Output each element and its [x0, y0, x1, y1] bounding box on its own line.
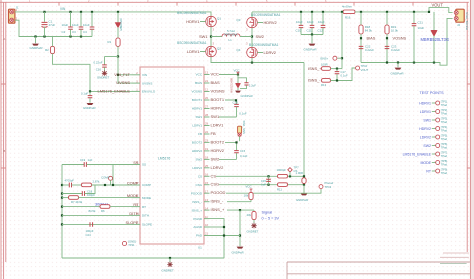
- wire gate Q4: [257, 52, 263, 54]
- svg-text:VOSNS: VOSNS: [211, 89, 225, 94]
- wire gate Q3: [257, 22, 263, 24]
- svg-text:GNDPwR: GNDPwR: [296, 198, 308, 202]
- svg-text:SW2: SW2: [423, 144, 431, 148]
- wire gate Q1: [200, 21, 206, 23]
- svg-text:BSC0904NSIATMA1: BSC0904NSIATMA1: [177, 11, 207, 15]
- svg-text:HDRV1: HDRV1: [211, 106, 225, 111]
- svg-text:10.0k: 10.0k: [391, 29, 399, 33]
- svg-text:ISNS_-: ISNS_-: [308, 78, 321, 83]
- svg-text:10uF: 10uF: [62, 23, 69, 27]
- junction: [311, 11, 313, 13]
- svg-text:PGOOD: PGOOD: [211, 190, 226, 195]
- pin RT U1: [132, 206, 141, 208]
- svg-text:PGND: PGND: [193, 217, 203, 221]
- junction: [341, 11, 343, 13]
- svg-text:R1: R1: [107, 40, 111, 44]
- wire SW1: [219, 116, 237, 118]
- capacitor C2: [70, 12, 72, 27]
- svg-text:LDRV2: LDRV2: [264, 50, 276, 55]
- svg-text:TPad: TPad: [441, 137, 448, 141]
- svg-text:GNDPwR: GNDPwR: [304, 48, 318, 52]
- svg-text:MODE: MODE: [421, 161, 432, 165]
- svg-text:[TP1]: [TP1]: [441, 100, 447, 104]
- wire SW2: [219, 158, 237, 160]
- wire ISNS_-: [227, 201, 251, 203]
- svg-text:PGOOD: PGOOD: [191, 191, 203, 195]
- svg-text:10uF: 10uF: [418, 26, 425, 30]
- resistor R14: [253, 210, 255, 211]
- wire: [303, 185, 305, 193]
- connector J3 test pin: [238, 126, 242, 133]
- ground GNDPWR: [309, 44, 316, 46]
- wire source rail: [211, 57, 304, 63]
- capacitor C21: [413, 12, 415, 24]
- junction: [61, 214, 63, 216]
- wire: [253, 220, 255, 224]
- wire CS: [216, 175, 304, 177]
- svg-text:LDRV1: LDRV1: [211, 123, 225, 128]
- junction: [91, 11, 93, 13]
- svg-text:FB: FB: [198, 132, 202, 136]
- svg-text:TPad: TPad: [441, 129, 448, 133]
- svg-text:VIN: VIN: [142, 73, 147, 77]
- svg-text:LDRV1: LDRV1: [420, 110, 431, 114]
- svg-text:C2: C2: [62, 30, 66, 34]
- transistor Q3 HDRV2: [247, 17, 258, 28]
- junction SW2: [251, 35, 253, 37]
- junction: [80, 11, 82, 13]
- svg-text:HDRV2: HDRV2: [419, 127, 431, 131]
- svg-text:BIAS: BIAS: [195, 81, 202, 85]
- svg-text:CS: CS: [211, 173, 217, 178]
- junction: [104, 184, 106, 186]
- svg-text:RT: RT: [133, 202, 139, 207]
- connector J1: [9, 9, 15, 23]
- svg-text:[TP6]: [TP6]: [441, 142, 447, 146]
- svg-text:CSG: CSG: [195, 183, 202, 187]
- resistor R11: [278, 183, 288, 187]
- junction: [34, 35, 36, 37]
- svg-text:BOOT1: BOOT1: [192, 98, 203, 102]
- pin VCC U1: [204, 74, 210, 76]
- junction: [397, 61, 399, 63]
- svg-text:1000pF: 1000pF: [277, 168, 287, 172]
- svg-text:ISNS_-: ISNS_-: [192, 200, 202, 204]
- wire MODE: [62, 197, 69, 199]
- svg-text:R16: R16: [345, 16, 351, 20]
- svg-text:84.5k: 84.5k: [89, 209, 96, 213]
- svg-text:SW2: SW2: [211, 156, 220, 161]
- svg-text:EN/UVLO: EN/UVLO: [142, 90, 156, 94]
- ground GNDPWR: [235, 91, 241, 93]
- svg-text:SS: SS: [142, 163, 146, 167]
- svg-text:C4: C4: [83, 30, 87, 34]
- junction: [112, 184, 114, 186]
- wire SW1 node: [210, 27, 212, 46]
- junction: [360, 11, 362, 13]
- wire BOOT1: [225, 100, 237, 104]
- junction: [239, 234, 241, 236]
- svg-text:22: 22: [205, 130, 208, 134]
- junction: [341, 57, 343, 59]
- svg-text:[TP3]: [TP3]: [441, 117, 447, 121]
- wire PGND: [210, 219, 225, 258]
- svg-text:C16: C16: [96, 68, 102, 72]
- svg-text:C24: C24: [86, 233, 92, 237]
- svg-text:ISNS_+: ISNS_+: [192, 208, 203, 212]
- svg-text:C12: C12: [318, 29, 324, 33]
- svg-text:GNDPwR: GNDPwR: [232, 251, 244, 255]
- transistor Q2 LDRV1: [206, 46, 217, 57]
- svg-text:VOSNS: VOSNS: [393, 36, 407, 41]
- wire: [110, 206, 132, 208]
- svg-text:B: B: [3, 149, 5, 153]
- connector J2: [454, 9, 464, 22]
- wire LM5176_ENABLE: [53, 54, 132, 92]
- wire output gnd: [361, 18, 453, 65]
- pin ISNS_- U1: [204, 201, 210, 203]
- capacitor C22: [359, 46, 364, 48]
- svg-text:C19: C19: [80, 158, 86, 162]
- svg-text:[TP4]: [TP4]: [441, 125, 447, 129]
- resistor R15: [302, 178, 306, 184]
- wire: [239, 136, 241, 141]
- wire CS sense: [303, 63, 305, 177]
- svg-text:R11: R11: [277, 188, 282, 192]
- svg-text:BIAS: BIAS: [367, 36, 376, 41]
- junction: [433, 61, 435, 63]
- inductor L1: [211, 36, 222, 38]
- svg-text:47uF: 47uF: [49, 23, 56, 27]
- svg-text:4700pF: 4700pF: [65, 179, 75, 183]
- junction: [89, 90, 91, 92]
- svg-text:29: 29: [205, 122, 208, 126]
- wire PGOOD: [226, 189, 321, 193]
- svg-text:Screw_Terminal: Screw_Terminal: [465, 12, 468, 30]
- wire SW2 node: [251, 28, 253, 47]
- capacitor C13: [234, 104, 239, 106]
- resistor R6: [100, 205, 110, 209]
- svg-text:0.22uF: 0.22uF: [94, 61, 103, 65]
- test point GND: [122, 241, 126, 245]
- svg-text:19: 19: [205, 147, 208, 151]
- svg-text:10k: 10k: [244, 193, 249, 197]
- junction: [303, 175, 305, 177]
- capacitor C3: [80, 12, 82, 27]
- junction: [61, 206, 63, 208]
- svg-text:COMP: COMP: [142, 183, 151, 187]
- test point TP6: [109, 176, 113, 180]
- capacitor C23: [385, 46, 390, 48]
- wire: [35, 37, 37, 44]
- junction: [386, 37, 388, 39]
- pin DITH U1: [132, 214, 141, 216]
- junction: [223, 234, 225, 236]
- junction: [360, 37, 362, 39]
- wire comp bus: [61, 165, 63, 259]
- svg-text:2.87k: 2.87k: [93, 179, 100, 183]
- resistor R2: [50, 46, 54, 53]
- capacitor C4: [91, 12, 93, 27]
- junction: [386, 11, 388, 13]
- svg-text:TPad: TPad: [441, 171, 448, 175]
- svg-text:SW1_SNS: SW1_SNS: [242, 121, 246, 135]
- wire: [236, 107, 238, 117]
- svg-text:21: 21: [205, 232, 208, 236]
- wire: [289, 172, 291, 176]
- svg-text:[TP5]: [TP5]: [441, 134, 447, 138]
- svg-text:CSG: CSG: [211, 182, 220, 187]
- svg-text:23: 23: [205, 139, 208, 143]
- svg-text:TPad: TPad: [441, 154, 448, 158]
- svg-text:[TP9]: [TP9]: [441, 168, 447, 172]
- svg-text:14: 14: [205, 206, 208, 210]
- svg-text:13: 13: [205, 71, 208, 75]
- capacitor C20: [69, 183, 71, 188]
- svg-text:TP11: TP11: [128, 243, 135, 247]
- junction: [336, 79, 338, 81]
- junction: [69, 35, 71, 37]
- svg-text:HDRV1: HDRV1: [419, 101, 431, 105]
- svg-text:Signal: Signal: [262, 210, 273, 214]
- svg-text:C15: C15: [240, 149, 246, 153]
- junction: [69, 11, 71, 13]
- svg-text:GNDRET: GNDRET: [247, 230, 259, 234]
- svg-text:SW2: SW2: [195, 158, 202, 162]
- svg-text:C10: C10: [296, 29, 302, 33]
- ground GNDPWR: [301, 193, 308, 195]
- svg-text:VIN_FLT: VIN_FLT: [114, 72, 130, 77]
- pin SLOPE U1: [132, 223, 141, 225]
- svg-text:Q4: Q4: [236, 48, 240, 52]
- svg-text:BSC0904NSIATMA1: BSC0904NSIATMA1: [249, 43, 279, 47]
- capacitor C6: [238, 78, 247, 83]
- junction: [413, 61, 415, 63]
- pin PGOOD U1: [204, 192, 210, 194]
- svg-text:LM5176_ENABLE: LM5176_ENABLE: [98, 88, 131, 93]
- svg-text:VCC: VCC: [211, 72, 220, 77]
- pin LDRV1 U1: [204, 125, 210, 127]
- svg-text:SW1: SW1: [211, 114, 220, 119]
- junction: [43, 35, 45, 37]
- capacitor C10: [300, 12, 302, 25]
- svg-text:SW1: SW1: [199, 34, 207, 39]
- svg-text:R7 49.9k: R7 49.9k: [71, 200, 83, 204]
- svg-text:Q3: Q3: [236, 18, 240, 22]
- svg-text:SRP1265A: SRP1265A: [224, 32, 238, 36]
- svg-text:Q1: Q1: [217, 17, 221, 21]
- transistor Q1 HDRV1: [206, 16, 217, 27]
- wire: [386, 34, 388, 63]
- junction: [251, 61, 253, 63]
- wire VOUT to J2: [355, 8, 453, 13]
- svg-text:MBR0520: MBR0520: [119, 18, 123, 30]
- svg-text:TPad: TPad: [441, 163, 448, 167]
- svg-text:LM5176: LM5176: [158, 157, 170, 161]
- svg-text:LDRV2: LDRV2: [192, 166, 202, 170]
- diode D2 MBRB520: [433, 12, 435, 31]
- svg-text:HDRV1: HDRV1: [192, 107, 202, 111]
- svg-text:MODE: MODE: [142, 196, 151, 200]
- svg-text:C11: C11: [307, 29, 312, 33]
- svg-text:15: 15: [205, 181, 208, 185]
- svg-text:DITH: DITH: [142, 214, 149, 218]
- svg-text:10: 10: [205, 223, 208, 227]
- svg-text:LDRV1: LDRV1: [187, 49, 199, 54]
- capacitor C14: [234, 151, 239, 153]
- svg-text:SLOPE: SLOPE: [142, 223, 152, 227]
- wire DITH: [62, 214, 132, 216]
- svg-text:ISNS+: ISNS+: [320, 56, 329, 60]
- svg-text:100R: 100R: [321, 62, 328, 66]
- svg-text:2.2uF: 2.2uF: [249, 83, 256, 87]
- wire: [360, 34, 362, 63]
- svg-text:HDRV2: HDRV2: [211, 148, 225, 153]
- svg-text:HDRV1: HDRV1: [186, 19, 199, 24]
- wire CSG: [219, 184, 304, 186]
- svg-text:TEST POINTS: TEST POINTS: [420, 91, 445, 95]
- svg-text:43k: 43k: [246, 213, 251, 217]
- svg-text:RT: RT: [142, 205, 146, 209]
- junction: [61, 184, 63, 186]
- svg-text:LDRV1: LDRV1: [192, 124, 202, 128]
- svg-text:BOOT2: BOOT2: [192, 141, 203, 145]
- resistor R18: [360, 12, 362, 25]
- title block: [287, 253, 470, 279]
- wire gate Q2: [200, 51, 206, 53]
- svg-text:BIAS: BIAS: [211, 80, 220, 85]
- svg-text:10uF: 10uF: [307, 20, 314, 24]
- wire ISNS_+ sense: [341, 12, 343, 69]
- svg-text:CS: CS: [198, 175, 202, 179]
- svg-text:25: 25: [205, 164, 208, 168]
- svg-text:LM5176_ENABLE: LM5176_ENABLE: [403, 152, 432, 156]
- svg-text:ISNS_+: ISNS_+: [308, 66, 322, 71]
- junction: [235, 99, 237, 101]
- svg-text:17: 17: [205, 189, 208, 193]
- wire: [117, 46, 119, 56]
- capacitor C19: [84, 162, 86, 167]
- junction: [289, 175, 291, 177]
- svg-text:27: 27: [205, 105, 208, 109]
- ground GNDRET: [251, 223, 256, 228]
- wire: [331, 68, 343, 70]
- wire: [92, 184, 132, 186]
- pin VIN U1: [132, 74, 141, 76]
- capacitor C5: [89, 91, 91, 95]
- pin SS U1: [132, 164, 141, 166]
- svg-text:VIN: VIN: [60, 7, 66, 11]
- wire ground rail: [62, 257, 224, 259]
- svg-text:0 ~ 5 = 3V: 0 ~ 5 = 3V: [262, 216, 280, 220]
- wire: [331, 68, 356, 81]
- junction SW1: [210, 35, 212, 37]
- wire VOUT rail left: [251, 12, 253, 17]
- capacitor C15: [268, 176, 270, 184]
- wire VCC: [219, 74, 238, 76]
- wire VOUT rail: [252, 11, 343, 13]
- svg-text:18: 18: [205, 156, 208, 160]
- junction: [336, 68, 338, 70]
- svg-text:VOUT: VOUT: [432, 3, 444, 8]
- svg-text:C3: C3: [72, 30, 76, 34]
- pin BOOT2 U1: [204, 141, 210, 143]
- wire: [337, 57, 342, 59]
- pin AGND U1: [204, 226, 210, 228]
- capacitor C24: [90, 222, 93, 227]
- svg-text:Q2: Q2: [217, 47, 221, 51]
- resistor R8: [82, 183, 92, 187]
- wire AGND: [210, 226, 225, 228]
- wire: [105, 56, 119, 58]
- svg-text:UVSNS: UVSNS: [142, 81, 152, 85]
- svg-text:TPad: TPad: [441, 103, 448, 107]
- svg-text:ISNS_+: ISNS_+: [211, 207, 226, 212]
- capacitor C17: [336, 69, 338, 72]
- junction: [303, 184, 305, 186]
- wire SLOPE: [62, 223, 132, 225]
- svg-text:UVSNS: UVSNS: [116, 80, 130, 85]
- junction: [311, 33, 313, 35]
- junction: [239, 209, 241, 211]
- wire: [250, 200, 252, 202]
- svg-text:BOOT2: BOOT2: [211, 139, 225, 144]
- wire ISNS_+: [227, 209, 254, 211]
- svg-text:1uF: 1uF: [88, 158, 93, 162]
- svg-text:1uF: 1uF: [261, 183, 266, 187]
- wire: [397, 63, 399, 68]
- junction: [61, 223, 63, 225]
- svg-text:16: 16: [205, 173, 208, 177]
- svg-text:AGND: AGND: [193, 225, 203, 229]
- wire: [86, 165, 113, 186]
- pin VOSNS U1: [204, 91, 210, 93]
- svg-text:J2: J2: [457, 23, 460, 27]
- pin UVSNS U1: [132, 82, 141, 84]
- svg-text:GNDPwR: GNDPwR: [241, 94, 253, 98]
- svg-text:U1: U1: [198, 246, 202, 250]
- junction: [223, 226, 225, 228]
- pin HDRV1 U1: [204, 108, 210, 110]
- svg-text:VOUT: VOUT: [361, 68, 369, 72]
- resistor R1: [116, 38, 120, 46]
- pin FB U1: [204, 133, 210, 135]
- pin ISNS_+ U1: [204, 209, 210, 211]
- wire: [52, 37, 54, 47]
- svg-text:BOOT1: BOOT1: [211, 97, 225, 102]
- svg-text:ISNS_-: ISNS_-: [211, 199, 225, 204]
- svg-text:10uF: 10uF: [318, 20, 325, 24]
- junction: [413, 11, 415, 13]
- junction: [43, 11, 45, 13]
- svg-text:TP13: TP13: [325, 185, 332, 189]
- test point TP10: [356, 66, 360, 70]
- svg-text:SW1: SW1: [423, 118, 431, 122]
- resistor R12: [322, 67, 331, 71]
- test point TP8: [319, 185, 323, 189]
- wire CHF: [62, 193, 82, 195]
- pin LDRV2 U1: [204, 167, 210, 169]
- wire COMP: [62, 184, 69, 186]
- svg-text:1.00R: 1.00R: [296, 171, 303, 175]
- svg-text:BSC0904NSIATMA1: BSC0904NSIATMA1: [177, 41, 207, 45]
- svg-text:4mOhm: 4mOhm: [342, 5, 353, 9]
- pin CS U1: [204, 175, 210, 177]
- svg-text:0.22uF: 0.22uF: [365, 48, 374, 52]
- svg-text:26: 26: [205, 96, 208, 100]
- pin HDRV2 U1: [204, 150, 210, 152]
- svg-text:MBRB520LT3G: MBRB520LT3G: [421, 37, 450, 42]
